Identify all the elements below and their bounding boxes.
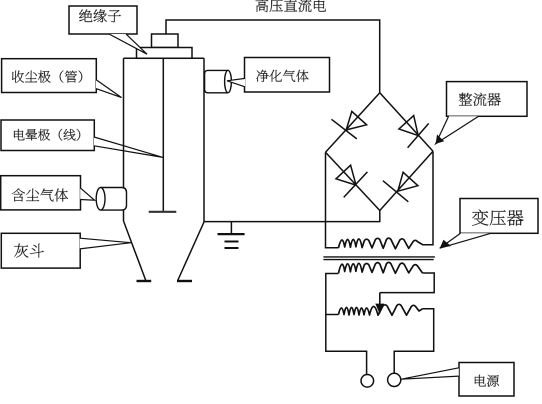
callout label: dusty gas inlet (含尘气体) [1, 176, 95, 210]
rectifier bridge diamond edges [326, 93, 434, 211]
wire: primary left lead down to terminal bracket [326, 274, 367, 375]
inlet pipe cylinder (dusty gas) [96, 188, 126, 211]
wire: vessel to rectifier DC output [204, 221, 380, 223]
transformer primary winding [339, 262, 423, 273]
wire: bridge bottom vertex to DC bus [379, 211, 381, 223]
callout label: rectifier (整流器) [436, 82, 527, 144]
wire: tapped winding left lead [326, 314, 339, 316]
diode D4 (bottom-right arm) [383, 172, 418, 202]
callout label: collecting electrode tube (收尘极（管）) [2, 59, 122, 98]
callout label: transformer (变压器) [440, 199, 538, 249]
terminal circle (left) [361, 375, 374, 388]
wire: high-voltage DC bus from insulator to rectifier bridge [166, 20, 380, 93]
insulator stack on vessel roof [137, 34, 193, 58]
wire: bridge right vertex down to HV winding [423, 151, 434, 245]
outlet pipe cylinder (clean gas) [205, 70, 232, 93]
wire: primary right lead to wiper feed [380, 273, 434, 293]
wire: bridge left vertex down to HV winding [326, 152, 339, 248]
label text: high-voltage DC (高压直流电) [256, 0, 326, 12]
corona electrode wire with bottom weight [149, 58, 177, 212]
callout label: clean gas outlet (净化气体) [227, 58, 330, 93]
diode D1 (top-left arm) [332, 111, 367, 138]
callout label: corona electrode wire (电晕极（线）) [1, 120, 163, 157]
transformer HV secondary winding [339, 238, 423, 249]
diode D2 (top-right arm) [399, 116, 429, 148]
transformer core [323, 257, 435, 260]
callout label: hopper (灰斗) [1, 233, 131, 268]
tapped regulating winding [339, 304, 423, 315]
vessel: collecting electrode tube outline [124, 58, 205, 222]
wire: tapped winding right lead down to terminal bracket [394, 309, 434, 373]
callout label: power source (电源) [401, 363, 514, 397]
ground symbol [218, 222, 245, 248]
wiper arrow onto tapped winding [375, 293, 384, 315]
diode D3 (bottom-left arm) [336, 165, 367, 197]
hopper cone with support feet [124, 221, 205, 281]
terminal circle (right) [388, 373, 401, 386]
callout label: insulator (绝缘子) [69, 6, 147, 54]
